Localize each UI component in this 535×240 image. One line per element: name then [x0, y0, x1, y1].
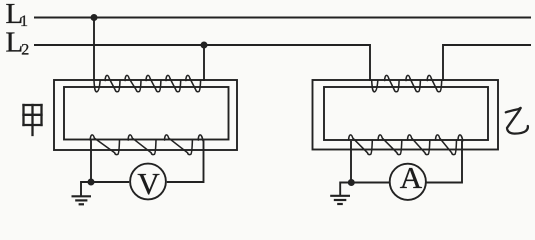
winding P1 (primary of 甲) turn 2 — [105, 75, 120, 91]
junction dot on L1 — [91, 14, 98, 21]
winding S1 (secondary of 甲) turn 2 — [128, 135, 156, 155]
winding P2 (primary of 乙) turn 1 — [372, 81, 378, 92]
ground symbol (left) bar 3 — [79, 203, 84, 205]
wire secondary right lead of 甲 down to voltmeter — [167, 141, 204, 183]
ground symbol (right) bar 3 — [337, 203, 343, 205]
wire L2 drop to primary of transformer 甲 — [203, 45, 205, 81]
wire node to voltmeter left terminal — [91, 181, 129, 183]
junction dot at ammeter/ground node — [348, 179, 355, 186]
winding P1 (primary of 甲) turn 3 — [125, 75, 141, 91]
ground symbol (right) bar 1 — [330, 195, 350, 197]
winding S1 (secondary of 甲) turn 4 — [198, 135, 203, 141]
ground lead (right) — [340, 183, 351, 196]
transformer 乙 core outer rectangle — [313, 80, 499, 150]
winding S2 (secondary of 乙) turn 5 — [458, 135, 463, 141]
winding S2 (secondary of 乙) turn 4 — [436, 135, 457, 155]
ground symbol (left) bar 1 — [72, 195, 92, 197]
wire secondary left lead of 甲 down to ground node — [90, 141, 92, 183]
svg-text:V: V — [137, 166, 160, 201]
wire node to ammeter left terminal — [351, 182, 389, 184]
wire L1 line — [34, 17, 531, 19]
ground symbol (left) bar 2 — [75, 199, 87, 201]
wire L1 drop to primary of transformer 甲 — [93, 18, 95, 82]
wire secondary left lead of 乙 down to ground node — [350, 141, 352, 183]
svg-text:2: 2 — [21, 41, 29, 58]
svg-text:A: A — [400, 160, 423, 195]
winding S1 (secondary of 甲) turn 1 — [90, 135, 119, 155]
ammeter A circle — [390, 164, 426, 200]
transformer 甲 core inner rectangle — [64, 87, 229, 140]
winding S2 (secondary of 乙) turn 2 — [378, 135, 402, 155]
ground symbol (right) bar 2 — [334, 199, 347, 201]
label 甲 — [24, 105, 42, 135]
voltmeter V circle — [130, 164, 166, 200]
junction dot on L2 — [201, 42, 208, 49]
transformer 甲 core outer rectangle — [54, 80, 237, 150]
wire secondary right lead of 乙 down to ammeter — [427, 141, 463, 183]
wire L2 line with drop to primary of transformer 乙 — [34, 45, 370, 81]
winding P2 (primary of 乙) turn 2 — [385, 75, 399, 91]
label 乙 — [506, 108, 528, 134]
winding P1 (primary of 甲) turn 6 — [186, 75, 201, 91]
winding S1 (secondary of 甲) turn 3 — [165, 135, 193, 155]
transformer 乙 core inner rectangle — [324, 87, 488, 140]
ground lead (left) — [81, 182, 91, 196]
junction dot at voltmeter/ground node — [88, 179, 95, 186]
winding P1 (primary of 甲) turn 5 — [166, 75, 181, 91]
winding P1 (primary of 甲) turn 1 — [94, 81, 100, 92]
winding P2 (primary of 乙) turn 3 — [406, 75, 420, 91]
winding S2 (secondary of 乙) turn 3 — [408, 135, 430, 155]
winding P1 (primary of 甲) turn 4 — [146, 75, 161, 91]
wire right feeder line with drop to primary of transformer 乙 — [443, 45, 531, 81]
winding P2 (primary of 乙) turn 4 — [427, 75, 441, 91]
winding S2 (secondary of 乙) turn 1 — [349, 135, 373, 155]
